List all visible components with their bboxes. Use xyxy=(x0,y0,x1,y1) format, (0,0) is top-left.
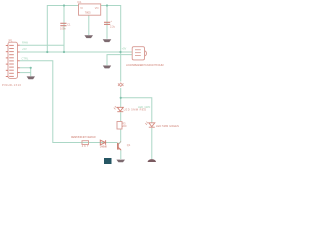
wire LED1 to R3 xyxy=(120,112,122,121)
logo square xyxy=(104,158,112,164)
connector JP1 xyxy=(2,39,22,87)
ground crystal branch xyxy=(103,66,111,69)
regulator IC1 7805 xyxy=(77,0,100,15)
wire LED chain vertical xyxy=(120,88,122,107)
ground under Q1 xyxy=(116,160,125,163)
wire 5V horizontal long xyxy=(20,51,132,53)
svg-text:7805: 7805 xyxy=(85,11,91,15)
svg-text:VI: VI xyxy=(80,6,83,10)
svg-text:LED 5MM GREEN: LED 5MM GREEN xyxy=(156,124,179,128)
svg-text:Q1: Q1 xyxy=(127,143,131,147)
svg-text:C1: C1 xyxy=(67,22,71,26)
ground near connector xyxy=(27,76,35,79)
svg-text:100n: 100n xyxy=(60,26,66,30)
speaker SP1 xyxy=(126,47,164,67)
svg-text:+5V: +5V xyxy=(122,47,127,51)
wire connector pin1 xyxy=(20,44,64,46)
wire LED2 to gnd xyxy=(151,128,153,160)
LED1 red xyxy=(114,106,146,112)
diode D1 xyxy=(100,140,108,148)
wire connector gnd pin xyxy=(20,68,31,76)
wire R3 to Q1 xyxy=(120,129,122,142)
wire Q1 collector xyxy=(119,142,121,144)
wire regulator gnd stub xyxy=(88,15,90,35)
svg-text:2.2u: 2.2u xyxy=(110,24,116,28)
ground under LED2 xyxy=(148,159,156,162)
wire Q1 emitter to gnd xyxy=(120,150,122,159)
wire connector gnd pin2 xyxy=(20,72,31,74)
svg-text:+5V: +5V xyxy=(22,47,27,51)
resistor R3 xyxy=(117,121,127,129)
svg-text:RAW: RAW xyxy=(22,40,29,44)
resistor R5 xyxy=(71,135,96,148)
svg-text:LOUDSPEAKER PC-MOUNT 8 OHM: LOUDSPEAKER PC-MOUNT 8 OHM xyxy=(126,63,164,67)
svg-text:CTRL: CTRL xyxy=(22,57,29,61)
wire crystal ground xyxy=(107,55,132,66)
wire C1 branch vertical xyxy=(63,6,65,53)
wire top VIN rail xyxy=(47,6,120,82)
ground under C2 xyxy=(103,39,112,42)
svg-text:LED_GRN: LED_GRN xyxy=(138,105,150,109)
power flag +5V xyxy=(118,83,123,87)
svg-text:PINHD-1X10: PINHD-1X10 xyxy=(2,83,22,87)
wire LED2 branch xyxy=(121,98,152,123)
svg-text:4K7: 4K7 xyxy=(82,144,89,148)
node junction dots xyxy=(30,4,122,99)
svg-text:1N4148: 1N4148 xyxy=(100,145,108,149)
wire control net xyxy=(20,61,118,143)
ground under regulator xyxy=(84,35,93,38)
svg-text:VO: VO xyxy=(95,6,99,10)
transistor Q1 xyxy=(118,142,131,151)
svg-text:RESISTOR 4K7 OHM 1W: RESISTOR 4K7 OHM 1W xyxy=(71,135,96,139)
capacitor C2 xyxy=(104,20,116,28)
svg-text:220: 220 xyxy=(122,124,127,128)
capacitor C1 xyxy=(60,22,71,30)
wire C2 branch xyxy=(106,6,108,39)
LED2 green xyxy=(145,122,179,129)
